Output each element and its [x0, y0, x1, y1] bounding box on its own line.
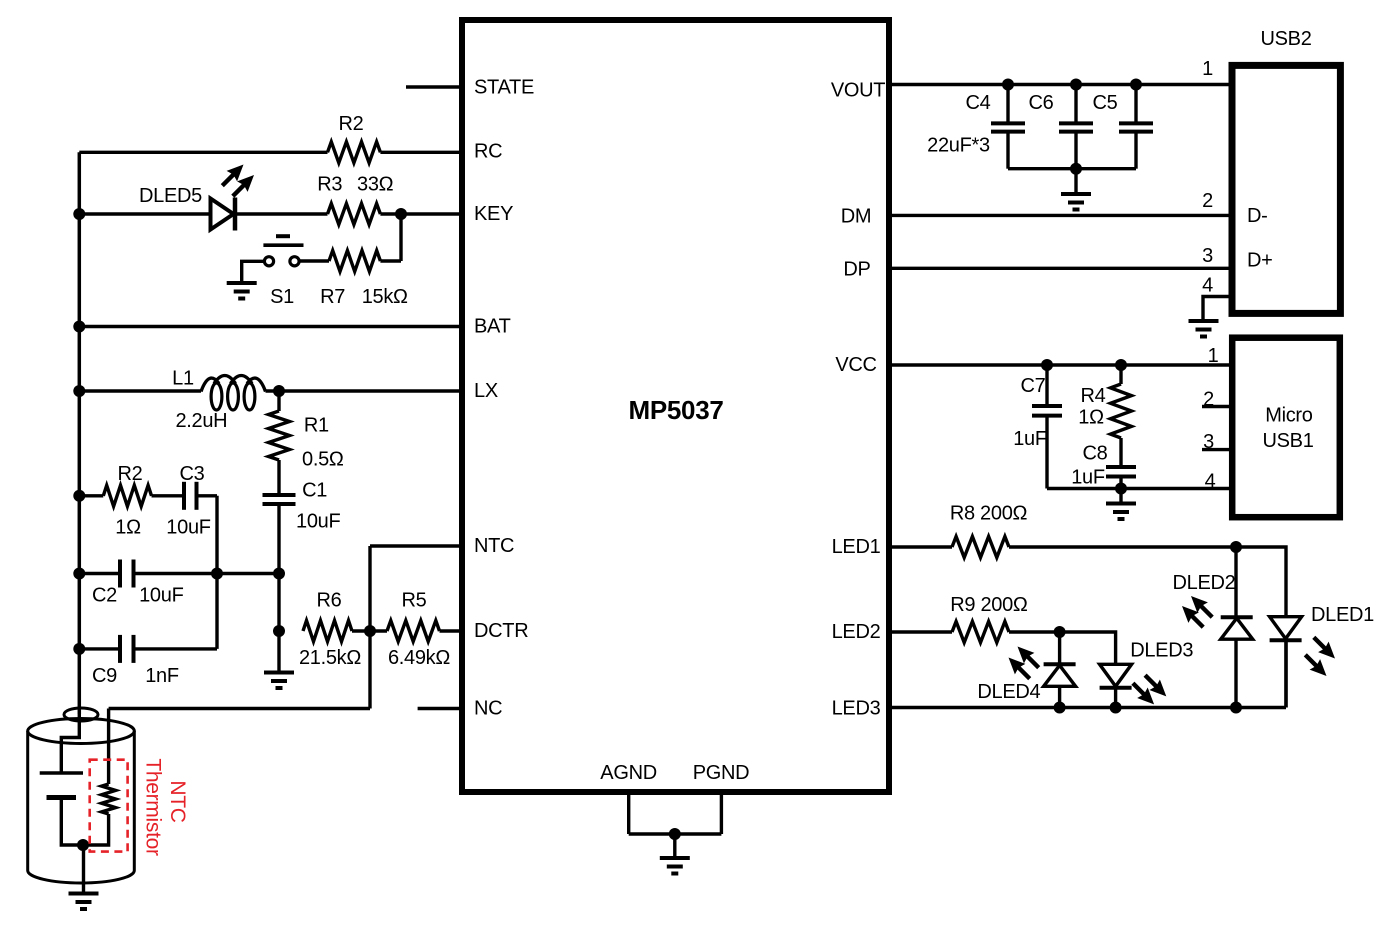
- svg-text:DLED5: DLED5: [139, 185, 202, 207]
- svg-text:C5: C5: [1093, 92, 1118, 114]
- svg-text:0.5Ω: 0.5Ω: [302, 449, 344, 471]
- node DLED2 bottom junction: [1230, 702, 1242, 714]
- svg-text:NTC: NTC: [166, 780, 189, 822]
- wire DLED3 bottom lead: [1114, 688, 1117, 708]
- wire R7 right lead: [380, 259, 401, 262]
- svg-text:R2: R2: [339, 113, 364, 135]
- capacitor C9: [118, 635, 122, 663]
- svg-text:DCTR: DCTR: [474, 620, 528, 642]
- inductor L1: [201, 376, 266, 392]
- svg-text:D+: D+: [1247, 250, 1273, 272]
- wire PGND stub: [720, 792, 723, 834]
- svg-text:S1: S1: [270, 286, 294, 308]
- battery cell plus plate: [40, 771, 83, 775]
- wire DLED2 bottom lead: [1234, 639, 1237, 707]
- wire KEY junction down to R7: [399, 214, 402, 261]
- node KEY/R7 junction: [395, 208, 407, 220]
- resistor R4: [1111, 384, 1132, 438]
- svg-text:USB2: USB2: [1260, 28, 1311, 50]
- node C6 top junction: [1070, 79, 1082, 91]
- svg-text:LED1: LED1: [832, 536, 881, 558]
- node rail/C2 junction: [211, 568, 223, 580]
- svg-text:USB1: USB1: [1262, 430, 1313, 452]
- wire battery minus to node: [61, 798, 83, 846]
- wire C4 bottom lead: [1006, 132, 1009, 169]
- wire BAT: [79, 325, 462, 328]
- LED DLED4 emission arrows: [1027, 656, 1039, 668]
- capacitor C6: [1059, 121, 1093, 125]
- svg-text:3: 3: [1202, 245, 1213, 267]
- wire C6 bottom lead: [1074, 132, 1077, 169]
- svg-text:NTC: NTC: [474, 535, 514, 557]
- wire C7 bottom lead: [1045, 416, 1048, 489]
- svg-text:21.5kΩ: 21.5kΩ: [299, 647, 361, 669]
- svg-text:15kΩ: 15kΩ: [362, 286, 408, 308]
- wire R4 to C8: [1119, 438, 1122, 467]
- wire R5 to DCTR pin: [440, 629, 463, 632]
- wire NTC pin horizontal: [370, 544, 462, 547]
- svg-text:4: 4: [1202, 274, 1213, 296]
- svg-text:R8 200Ω: R8 200Ω: [950, 502, 1028, 524]
- svg-text:MP5037: MP5037: [628, 395, 723, 425]
- svg-text:LED3: LED3: [832, 698, 881, 720]
- wire LED3: [889, 706, 1286, 709]
- svg-text:D-: D-: [1247, 205, 1268, 227]
- battery terminal nub: [64, 708, 98, 721]
- node R4 top junction: [1115, 359, 1127, 371]
- svg-text:1uF: 1uF: [1071, 467, 1105, 489]
- wire C2 to C1 node: [134, 572, 280, 575]
- wire DM: [889, 214, 1230, 217]
- capacitor C7: [1032, 404, 1062, 408]
- resistor R5: [387, 621, 440, 642]
- svg-text:10uF: 10uF: [139, 584, 183, 606]
- IC U1 MP5037 body: [462, 20, 889, 792]
- svg-text:1Ω: 1Ω: [115, 516, 141, 538]
- svg-text:DLED2: DLED2: [1173, 572, 1236, 594]
- svg-text:10uF: 10uF: [166, 516, 210, 538]
- node DLED4 top junction: [1054, 626, 1066, 638]
- ground at C8: [1119, 489, 1122, 504]
- node C1/C2 junction: [273, 568, 285, 580]
- wire VOUT: [889, 83, 1230, 86]
- wire C8 bottom lead: [1119, 477, 1122, 489]
- thermistor RT vertical lead: [107, 709, 110, 785]
- svg-text:DLED3: DLED3: [1130, 640, 1193, 662]
- wire C5 bottom lead: [1134, 132, 1137, 169]
- node cap rail junction: [1070, 163, 1082, 175]
- wire DLED5 to R3: [236, 212, 328, 215]
- ground at battery: [82, 845, 85, 894]
- ground at R6: [277, 631, 280, 673]
- wire DLED1 bottom lead: [1284, 642, 1287, 708]
- svg-text:C9: C9: [92, 665, 117, 687]
- node BAT/bus junction: [73, 321, 85, 333]
- node R6 left junction: [273, 625, 285, 637]
- resistor R8: [952, 537, 1009, 558]
- switch S1 button cap: [276, 234, 290, 238]
- svg-text:C2: C2: [92, 584, 117, 606]
- switch S1 right contact: [290, 257, 299, 266]
- svg-text:DM: DM: [841, 206, 872, 228]
- wire DLED2 top lead: [1234, 547, 1237, 617]
- wire LX left lead: [79, 389, 201, 392]
- node C7 top junction: [1041, 359, 1053, 371]
- wire S1 to ground: [242, 261, 264, 283]
- LED DLED1: [1270, 617, 1302, 639]
- svg-text:6.49kΩ: 6.49kΩ: [388, 647, 450, 669]
- node battery/thermistor junction: [77, 839, 89, 851]
- wire left bus vertical: [78, 152, 82, 714]
- LED DLED5: [211, 199, 234, 230]
- wire R6 to R5 junction: [352, 629, 387, 632]
- svg-text:LX: LX: [474, 380, 498, 402]
- node C8 rail junction: [1115, 483, 1127, 495]
- node DLED4 bottom junction: [1054, 702, 1066, 714]
- svg-text:C7: C7: [1021, 375, 1046, 397]
- node C4 top junction: [1002, 79, 1014, 91]
- wire AGND stub: [627, 792, 630, 834]
- svg-text:R9 200Ω: R9 200Ω: [950, 594, 1028, 616]
- svg-text:R7: R7: [320, 286, 345, 308]
- node LX/R1 junction: [273, 385, 285, 397]
- capacitor C4: [991, 121, 1025, 125]
- thermistor RT: [102, 784, 116, 814]
- wire NC stub: [418, 707, 462, 710]
- LED DLED4: [1044, 662, 1076, 666]
- ground at VOUT caps: [1074, 169, 1077, 194]
- wire C9 to right rail: [134, 647, 218, 650]
- node R6/R5/NTC junction: [364, 625, 376, 637]
- wire LX right segment: [266, 389, 463, 392]
- svg-text:1: 1: [1208, 345, 1219, 367]
- LED DLED3 emission arrows: [1145, 675, 1157, 687]
- resistor R3: [328, 204, 381, 225]
- ground at USB2 pin4: [1189, 319, 1219, 323]
- node KEY/bus junction: [73, 208, 85, 220]
- resistor R2 (1Ω): [103, 485, 151, 506]
- wire C7 top lead: [1045, 365, 1048, 406]
- resistor R1: [269, 411, 290, 460]
- svg-text:DLED1: DLED1: [1311, 604, 1374, 626]
- svg-text:PGND: PGND: [693, 762, 750, 784]
- ground at AGND/PGND: [673, 834, 676, 858]
- node AGND/PGND junction: [669, 828, 681, 840]
- wire VCC: [889, 363, 1230, 366]
- node R2/bus junction: [73, 490, 85, 502]
- wire DLED4 top lead: [1058, 632, 1061, 664]
- wire C1 node down to DCTR row: [277, 574, 280, 632]
- svg-text:R6: R6: [317, 590, 342, 612]
- wire RC left segment: [79, 151, 327, 154]
- wire C7/C8 bottom rail: [1047, 487, 1230, 490]
- svg-text:VCC: VCC: [835, 354, 876, 376]
- wire bus to C2: [79, 572, 120, 575]
- svg-text:2.2uH: 2.2uH: [175, 410, 227, 432]
- LED DLED1 emission arrows: [1314, 637, 1326, 649]
- capacitor C5: [1119, 121, 1153, 125]
- wire R1 top lead: [277, 391, 280, 411]
- node LX/bus junction: [73, 385, 85, 397]
- wire DLED1 bottom corner: [1284, 642, 1287, 708]
- switch S1 bridge bar: [263, 243, 303, 247]
- svg-text:LED2: LED2: [832, 621, 881, 643]
- svg-text:KEY: KEY: [474, 203, 513, 225]
- wire USB1 pin3 stub: [1202, 448, 1232, 451]
- battery cylinder body: [28, 731, 135, 883]
- svg-text:RC: RC: [474, 140, 502, 162]
- node C5 top junction: [1130, 79, 1142, 91]
- svg-text:R4: R4: [1081, 385, 1106, 407]
- wire LED1 left lead: [889, 545, 952, 548]
- resistor R7: [329, 251, 380, 272]
- node C2/bus junction: [73, 568, 85, 580]
- connector USB2 body: [1232, 65, 1340, 313]
- svg-text:1: 1: [1202, 58, 1213, 80]
- thermistor red dashed box: [90, 760, 128, 852]
- svg-text:Thermistor: Thermistor: [142, 758, 165, 856]
- capacitor C8: [1106, 465, 1136, 469]
- svg-text:STATE: STATE: [474, 77, 534, 99]
- wire AGND-PGND tie: [629, 832, 722, 835]
- svg-text:AGND: AGND: [600, 762, 657, 784]
- svg-text:1uF: 1uF: [1013, 428, 1047, 450]
- wire C4 top lead: [1006, 85, 1009, 124]
- svg-text:C4: C4: [966, 92, 991, 114]
- LED DLED2 emission arrows: [1200, 605, 1212, 617]
- svg-text:L1: L1: [172, 367, 194, 389]
- capacitor C1: [263, 493, 296, 497]
- wire bus into battery: [61, 714, 79, 773]
- svg-text:1Ω: 1Ω: [1078, 407, 1104, 429]
- svg-text:10uF: 10uF: [296, 511, 340, 533]
- svg-text:R2: R2: [118, 463, 143, 485]
- svg-text:BAT: BAT: [474, 316, 511, 338]
- LED DLED3: [1100, 664, 1132, 686]
- LED DLED5 emission arrows: [222, 174, 234, 186]
- wire DP: [889, 267, 1230, 270]
- svg-text:1nF: 1nF: [145, 665, 179, 687]
- connector Micro USB1 body: [1232, 338, 1340, 518]
- svg-text:C6: C6: [1029, 92, 1054, 114]
- battery cell minus plate: [47, 795, 77, 800]
- svg-text:4: 4: [1205, 471, 1216, 493]
- wire KEY segment bus to DLED5: [79, 212, 210, 215]
- svg-text:R5: R5: [402, 590, 427, 612]
- svg-text:22uF*3: 22uF*3: [927, 135, 990, 157]
- wire C1 bottom lead: [277, 504, 280, 574]
- resistor R6: [303, 621, 352, 642]
- capacitor C3: [182, 482, 186, 510]
- wire bus to R2: [79, 494, 103, 497]
- svg-text:Micro: Micro: [1265, 404, 1313, 426]
- wire C6 top lead: [1074, 85, 1077, 124]
- wire DLED4 bottom lead: [1058, 686, 1061, 707]
- svg-text:DP: DP: [843, 259, 870, 281]
- wire R1 to C1: [277, 460, 280, 495]
- node C9/bus junction: [73, 643, 85, 655]
- svg-text:R1: R1: [304, 415, 329, 437]
- wire R2 to C3: [152, 494, 185, 497]
- svg-text:R3: R3: [317, 174, 342, 196]
- wire right rail C3-C9: [215, 496, 218, 649]
- svg-text:2: 2: [1202, 190, 1213, 212]
- svg-text:C8: C8: [1083, 442, 1108, 464]
- svg-text:C1: C1: [302, 479, 327, 501]
- wire bus to C9: [79, 647, 120, 650]
- capacitor C2: [118, 560, 122, 588]
- wire R7 to switch: [300, 259, 329, 262]
- resistor R2 (RC): [328, 142, 381, 163]
- wire USB2 pin4 to ground: [1203, 297, 1230, 322]
- LED DLED2: [1221, 615, 1253, 619]
- wire cap bottom rail: [1008, 167, 1136, 170]
- svg-text:NC: NC: [474, 698, 502, 720]
- wire LED2 right segment: [1009, 632, 1116, 664]
- wire LED1 right segment: [1009, 547, 1286, 617]
- wire C3 to right rail: [197, 494, 218, 497]
- wire thermistor to node: [83, 814, 109, 845]
- switch S1 left contact: [264, 257, 273, 266]
- wire NTC vertical: [368, 546, 371, 709]
- wire LED2 left lead: [889, 630, 952, 633]
- wire R4 top lead: [1119, 365, 1122, 384]
- wire STATE stub: [406, 85, 462, 88]
- svg-text:33Ω: 33Ω: [357, 174, 394, 196]
- svg-text:C3: C3: [180, 463, 205, 485]
- wire USB1 pin2 stub: [1202, 405, 1232, 408]
- wire NTC to thermistor: [109, 707, 370, 710]
- wire RC right segment: [380, 151, 462, 154]
- wire R3 to KEY pin: [380, 212, 462, 215]
- svg-text:VOUT: VOUT: [831, 80, 885, 102]
- node DLED2 top junction: [1230, 541, 1242, 553]
- wire C5 top lead: [1134, 85, 1137, 124]
- node DLED3 bottom junction: [1110, 702, 1122, 714]
- ground at S1: [227, 281, 257, 285]
- svg-text:DLED4: DLED4: [977, 681, 1040, 703]
- resistor R9: [952, 622, 1009, 643]
